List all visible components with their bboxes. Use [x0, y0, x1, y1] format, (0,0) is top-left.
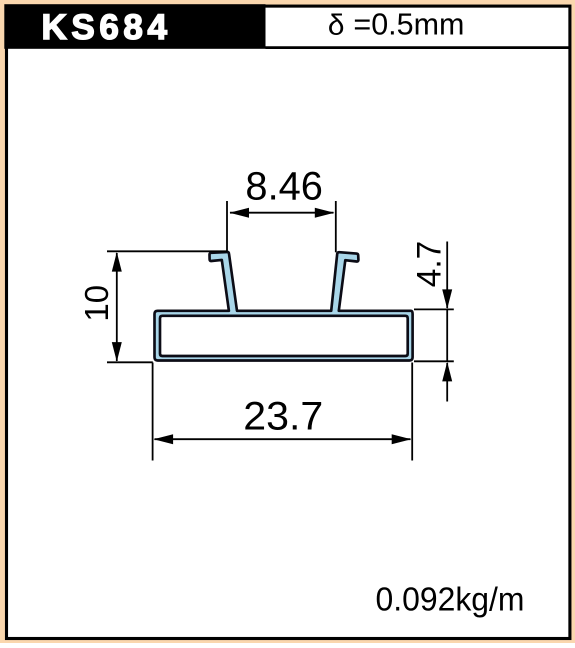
dimension 8.46 right arrowhead	[315, 208, 335, 218]
dimension 4.7 extension lines	[414, 309, 454, 361]
title bar	[4, 4, 265, 49]
svg-text:δ =0.5mm: δ =0.5mm	[328, 7, 465, 43]
dimension 10 extension lines	[107, 251, 227, 362]
svg-text:10: 10	[78, 285, 115, 322]
dimension 23.7 extension lines	[153, 363, 413, 461]
svg-text:23.7: 23.7	[243, 394, 323, 438]
dimension 23.7 line	[155, 438, 411, 440]
svg-text:KS684: KS684	[42, 8, 172, 47]
svg-text:0.092kg/m: 0.092kg/m	[376, 582, 525, 619]
profile KS684 cross-section	[155, 252, 413, 361]
dimension 23.7 left arrowhead	[154, 434, 174, 444]
dimension 8.46 left arrowhead	[230, 208, 250, 218]
dimension 10 line	[116, 253, 118, 361]
dimension 4.7 upper arrowhead	[442, 289, 452, 309]
dimension 4.7 lower arrowhead	[442, 362, 452, 382]
dimension 10 top arrowhead	[112, 252, 122, 272]
dimension 8.46 extension lines	[227, 201, 336, 252]
svg-text:8.46: 8.46	[245, 165, 323, 209]
svg-text:4.7: 4.7	[411, 241, 449, 288]
dimension 8.46 line	[230, 212, 334, 214]
thickness box bottom border	[266, 46, 572, 49]
dimension 4.7 leader lines	[446, 242, 448, 402]
dimension 23.7 right arrowhead	[392, 434, 412, 444]
dimension 10 bottom arrowhead	[112, 342, 122, 362]
